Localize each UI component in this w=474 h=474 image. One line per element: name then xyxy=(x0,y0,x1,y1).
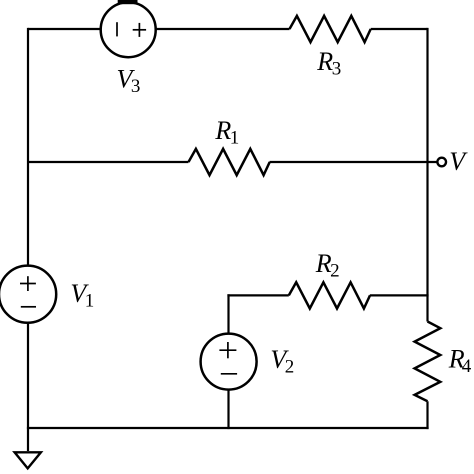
voltage source V1 xyxy=(0,266,56,323)
resistor R1 xyxy=(189,149,270,175)
wire: right rail lower segment (R4 to bottom rail) xyxy=(426,401,428,429)
wire: top rail left segment xyxy=(28,28,101,30)
cropped arrowhead artifact above V3 xyxy=(118,0,138,4)
wire: V2 branch upper segment xyxy=(227,294,229,334)
voltage source V3 xyxy=(101,2,156,57)
wire: top rail right segment (R3 to right corner) xyxy=(371,28,428,30)
resistor R2 xyxy=(289,282,370,308)
wire: V2 branch lower segment xyxy=(227,389,229,429)
resistor R3 xyxy=(290,16,371,42)
wire: R2 branch right segment (R2 to right rail) xyxy=(370,294,429,296)
ground xyxy=(15,452,41,468)
wire: left rail upper segment xyxy=(27,28,29,266)
wire: R2 branch left segment (corner to R2) xyxy=(227,294,288,296)
wire: left rail lower segment (V1 to ground) xyxy=(27,323,29,452)
wire: bottom rail xyxy=(27,427,429,429)
wire: top rail middle segment (V3 to R3) xyxy=(156,28,290,30)
voltage source V2 xyxy=(201,334,257,390)
node V (open output terminal) xyxy=(437,158,446,167)
wire: middle rail right segment (R1 to node V) xyxy=(270,161,438,163)
wire: middle rail left segment (left rail to R1) xyxy=(28,161,189,163)
wire: right rail upper segment xyxy=(426,28,428,322)
resistor R4 xyxy=(415,322,441,402)
